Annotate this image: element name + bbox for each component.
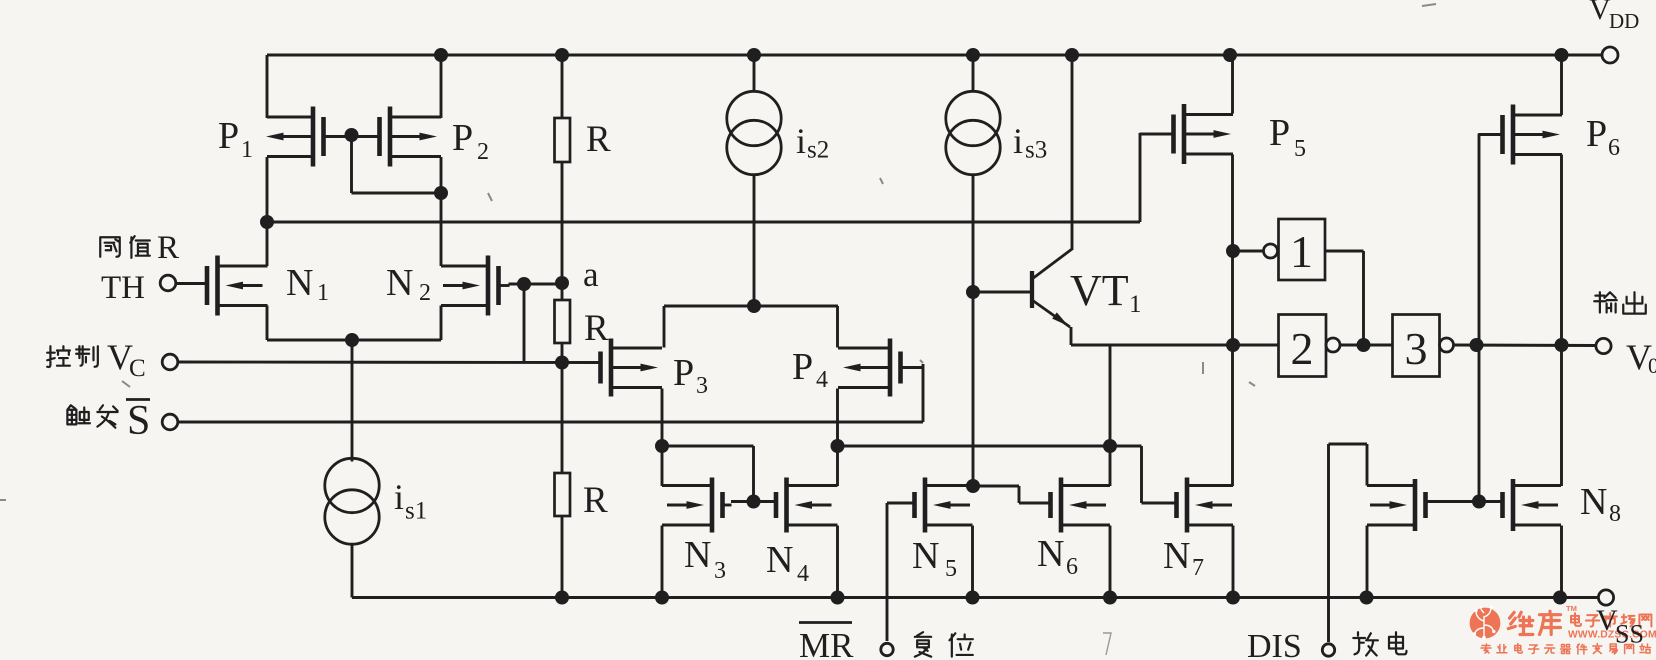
svg-text:C: C — [129, 355, 146, 382]
svg-text:N: N — [1580, 481, 1607, 523]
svg-text:6: 6 — [1066, 554, 1078, 580]
svg-text:3: 3 — [714, 558, 726, 584]
svg-text:1: 1 — [241, 137, 253, 163]
svg-text:4: 4 — [816, 367, 828, 393]
svg-text:5: 5 — [945, 556, 957, 582]
svg-text:a: a — [583, 255, 599, 294]
svg-text:s1: s1 — [405, 498, 427, 525]
svg-text:P: P — [452, 117, 473, 159]
svg-text:DD: DD — [1609, 9, 1639, 33]
svg-text:2: 2 — [477, 139, 489, 165]
svg-text:8: 8 — [1609, 501, 1621, 527]
svg-text:P: P — [218, 115, 239, 157]
svg-text:R: R — [157, 230, 179, 266]
svg-text:i: i — [796, 121, 806, 161]
svg-text:N: N — [1037, 533, 1064, 575]
svg-text:2: 2 — [1291, 323, 1314, 374]
svg-text:DIS: DIS — [1247, 628, 1302, 660]
svg-text:3: 3 — [1405, 323, 1428, 374]
svg-text:5: 5 — [1294, 136, 1306, 162]
svg-text:P: P — [1269, 112, 1290, 154]
svg-text:N: N — [1163, 535, 1190, 577]
svg-text:1: 1 — [317, 280, 329, 306]
svg-text:6: 6 — [1608, 135, 1620, 161]
svg-text:0: 0 — [1648, 353, 1656, 378]
svg-text:i: i — [394, 477, 404, 517]
svg-text:2: 2 — [419, 280, 431, 306]
svg-text:N: N — [286, 262, 313, 304]
svg-text:N: N — [766, 539, 793, 581]
svg-text:P: P — [673, 352, 694, 394]
svg-text:TM: TM — [1566, 604, 1577, 613]
svg-text:S: S — [127, 398, 150, 444]
svg-text:R: R — [584, 308, 609, 349]
svg-text:MR: MR — [799, 626, 854, 660]
svg-text:SS: SS — [1615, 620, 1644, 649]
svg-text:1: 1 — [1290, 226, 1313, 277]
svg-text:N: N — [386, 262, 413, 304]
svg-text:1: 1 — [1129, 291, 1142, 318]
svg-text:N: N — [912, 535, 939, 577]
svg-text:s3: s3 — [1025, 137, 1047, 164]
svg-text:R: R — [586, 119, 611, 160]
svg-text:N: N — [684, 534, 711, 576]
svg-text:TH: TH — [101, 270, 145, 306]
svg-text:i: i — [1013, 121, 1023, 161]
svg-text:s2: s2 — [807, 137, 829, 164]
svg-text:7: 7 — [1192, 555, 1204, 581]
svg-text:3: 3 — [696, 373, 708, 399]
svg-text:VT: VT — [1070, 266, 1129, 315]
svg-text:P: P — [1586, 113, 1607, 155]
svg-text:4: 4 — [797, 561, 809, 587]
svg-text:R: R — [583, 480, 608, 521]
svg-text:P: P — [792, 346, 813, 388]
svg-text:V: V — [1589, 0, 1611, 26]
